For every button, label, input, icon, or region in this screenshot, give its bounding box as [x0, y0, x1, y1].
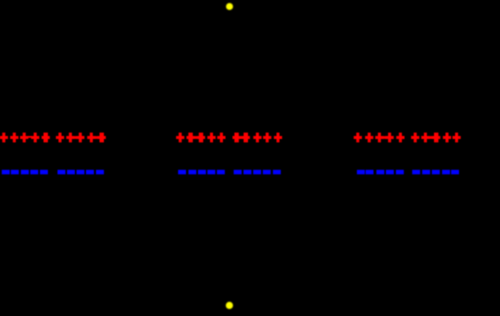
negative charge 3.4 — [207, 170, 215, 175]
positive charge arm bridge 3.2-3.3 — [191, 136, 201, 139]
negative charge 3.5 — [217, 170, 225, 175]
positive charge 2.4 — [87, 133, 95, 143]
positive charge 3.3 — [197, 133, 205, 143]
negative charge 6.3 — [432, 170, 440, 175]
negative charge cluster 6 (blue minus row) — [412, 170, 459, 175]
positive charge arm bridge 6.2-6.3 — [425, 136, 436, 139]
positive charge cluster 3 (red plus row) — [176, 133, 225, 143]
positive charge 5.2 — [365, 133, 373, 143]
positive charge cluster 5 (red plus row) — [354, 133, 405, 143]
point charge bottom (yellow) — [226, 302, 233, 309]
negative charge 1.2 — [11, 170, 19, 175]
positive charge cluster 2 (red plus row) — [56, 133, 106, 143]
negative charge 1.5 — [40, 170, 48, 175]
positive charge 1.2 — [10, 133, 18, 143]
positive charge 4.5 — [274, 133, 282, 143]
positive charge 6.1 — [411, 133, 419, 143]
negative charge cluster 1 (blue minus row) — [2, 170, 48, 175]
negative charge 2.2 — [67, 170, 75, 175]
negative charge 5.1 — [357, 170, 365, 175]
negative charge 2.1 — [58, 170, 66, 175]
positive charge 6.5 — [453, 133, 461, 143]
positive charge arm bridge 1.3-1.4 — [24, 136, 35, 138]
positive charge 4.3 — [253, 133, 261, 143]
negative charge 2.4 — [86, 170, 94, 175]
positive charge 1.5 — [42, 133, 50, 143]
positive charge 3.4 — [207, 133, 215, 143]
negative charge 4.2 — [244, 170, 252, 175]
positive charge 2.3 — [76, 133, 84, 143]
positive charge 4.4 — [263, 133, 271, 143]
negative charge 6.4 — [442, 170, 450, 175]
negative charge 1.4 — [30, 170, 38, 175]
negative charge 4.5 — [273, 170, 281, 175]
positive charge cluster 1 (red plus row) — [0, 133, 50, 143]
positive charge 4.1 — [233, 133, 241, 143]
negative charge 5.5 — [396, 170, 404, 175]
positive charge 3.1 — [176, 133, 184, 143]
negative charge 5.3 — [376, 170, 384, 175]
negative charge 6.1 — [412, 170, 420, 175]
negative charge 1.3 — [21, 170, 29, 175]
positive charge cluster 6 (red plus row) — [411, 133, 461, 143]
positive charge 2.2 — [66, 133, 74, 143]
positive charge 5.3 — [375, 133, 383, 143]
negative charge 4.1 — [234, 170, 242, 175]
negative charge 4.4 — [263, 170, 271, 175]
positive charge 5.5 — [396, 133, 404, 143]
positive charge arm bridge 2.2-2.3 — [70, 136, 80, 139]
positive charge arm bridge 5.3-5.4 — [379, 136, 389, 139]
positive charge 5.1 — [354, 133, 362, 143]
negative charge cluster 4 (blue minus row) — [234, 170, 281, 175]
negative charge 6.5 — [451, 170, 459, 175]
negative charge 5.2 — [366, 170, 374, 175]
positive charge 6.3 — [432, 133, 440, 143]
positive charge 5.4 — [386, 133, 394, 143]
positive charge arm bridge 2.4-2.5 — [91, 136, 101, 139]
positive charge 3.2 — [187, 133, 195, 143]
positive charge 2.5 — [98, 133, 106, 143]
positive charge arm bridge 4.1-4.2 — [237, 136, 246, 139]
negative charge 3.3 — [198, 170, 206, 175]
positive charge 6.4 — [443, 133, 451, 143]
negative charge 3.2 — [188, 170, 196, 175]
negative charge 2.5 — [96, 170, 104, 175]
negative charge 4.3 — [253, 170, 261, 175]
point charge top (yellow) — [226, 3, 233, 10]
negative charge 1.1 — [2, 170, 10, 175]
negative charge cluster 3 (blue minus row) — [178, 170, 225, 175]
negative charge 2.3 — [77, 170, 85, 175]
positive charge 4.2 — [242, 133, 250, 143]
negative charge cluster 2 (blue minus row) — [58, 170, 104, 175]
negative charge 3.1 — [178, 170, 186, 175]
positive charge 1.3 — [20, 133, 28, 143]
positive charge 1.1 — [0, 133, 8, 143]
positive charge 3.5 — [217, 133, 225, 143]
positive charge cluster 4 (red plus row) — [233, 133, 283, 143]
negative charge 6.2 — [422, 170, 430, 175]
positive charge 6.2 — [421, 133, 429, 143]
positive charge 2.1 — [56, 133, 64, 143]
positive charge 1.4 — [31, 133, 39, 143]
negative charge 5.4 — [386, 170, 394, 175]
negative charge cluster 5 (blue minus row) — [357, 170, 404, 175]
